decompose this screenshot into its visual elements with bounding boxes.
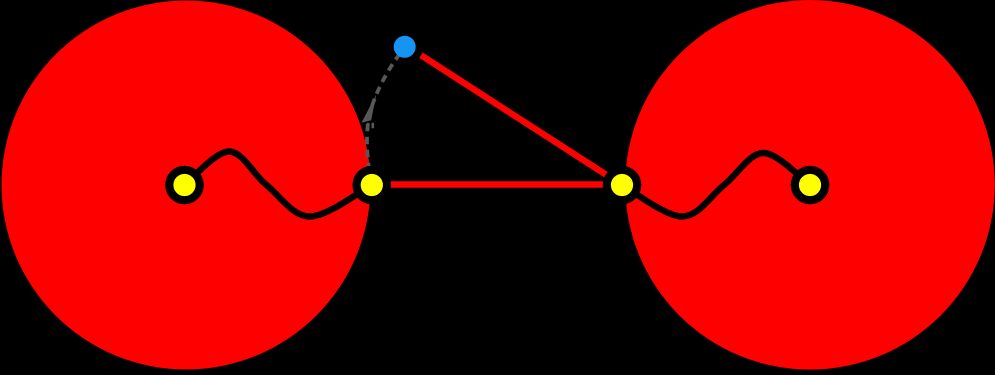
gray arrow stem bar left [367,123,370,130]
gray arrowhead [362,95,377,123]
red edge diagonal (blue node to node C) [421,55,622,185]
blue node [394,36,416,58]
community circle left [2,1,371,370]
red edge horizontal (node B to node C) [372,181,622,187]
wavy edge right (node C to node D) [622,153,810,217]
wavy edge left (node A to node B) [185,152,372,217]
node B yellow [357,170,387,200]
gray arrow stem bar right [372,123,375,128]
node A yellow [169,170,199,200]
node C yellow [607,170,637,200]
node D yellow [795,170,825,200]
gray dashed arrow curve (node B to blue node) [367,48,404,183]
community circle right [625,0,995,370]
